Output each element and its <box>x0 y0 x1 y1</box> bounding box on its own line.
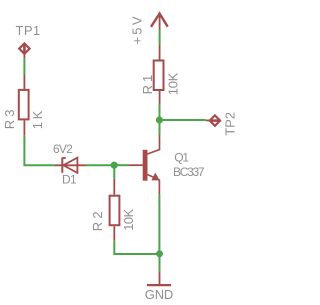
resistor R3 <box>19 75 29 136</box>
wire +5V to R1 <box>159 30 161 46</box>
svg-text:+5V: +5V <box>129 14 144 44</box>
svg-text:Q1: Q1 <box>174 150 189 164</box>
wire R1 to collector junction <box>159 104 161 121</box>
svg-text:R3: R3 <box>2 107 17 130</box>
wire junction to Q1 collector <box>159 120 161 135</box>
wire junction to Q1 base <box>114 164 129 166</box>
junction collector node <box>156 116 163 123</box>
wire junction to TP2 <box>159 119 205 121</box>
junction emitter node <box>156 250 163 257</box>
test point TP1 <box>19 43 29 58</box>
test point TP2 <box>206 115 220 125</box>
svg-text:GND: GND <box>145 287 173 302</box>
wire junction down to R2 <box>113 165 115 179</box>
wire D1 to junction <box>86 164 115 166</box>
svg-text:TP2: TP2 <box>223 112 238 136</box>
svg-text:TP1: TP1 <box>16 23 41 38</box>
svg-text:6V2: 6V2 <box>53 142 73 156</box>
resistor R1 <box>154 45 164 104</box>
diode D1 zener <box>55 158 86 173</box>
junction base node <box>111 162 118 169</box>
svg-text:D1: D1 <box>62 172 77 186</box>
wire Q1 emitter to bottom junction <box>158 195 160 254</box>
svg-text:R1: R1 <box>140 72 155 95</box>
resistor R2 <box>110 179 120 241</box>
svg-text:10K: 10K <box>121 209 136 231</box>
wire R3 to D1 <box>24 135 54 165</box>
wire bottom junction to GND <box>159 254 161 271</box>
transistor Q1 <box>129 135 160 195</box>
ground GND <box>147 271 171 285</box>
wire TP1 to R3 <box>23 58 25 74</box>
wire R2 to bottom junction <box>114 241 159 254</box>
svg-text:1K: 1K <box>30 108 45 129</box>
svg-text:R2: R2 <box>90 208 105 231</box>
svg-text:BC337: BC337 <box>173 165 205 179</box>
supply +5V <box>151 14 168 30</box>
svg-text:10K: 10K <box>165 72 180 95</box>
